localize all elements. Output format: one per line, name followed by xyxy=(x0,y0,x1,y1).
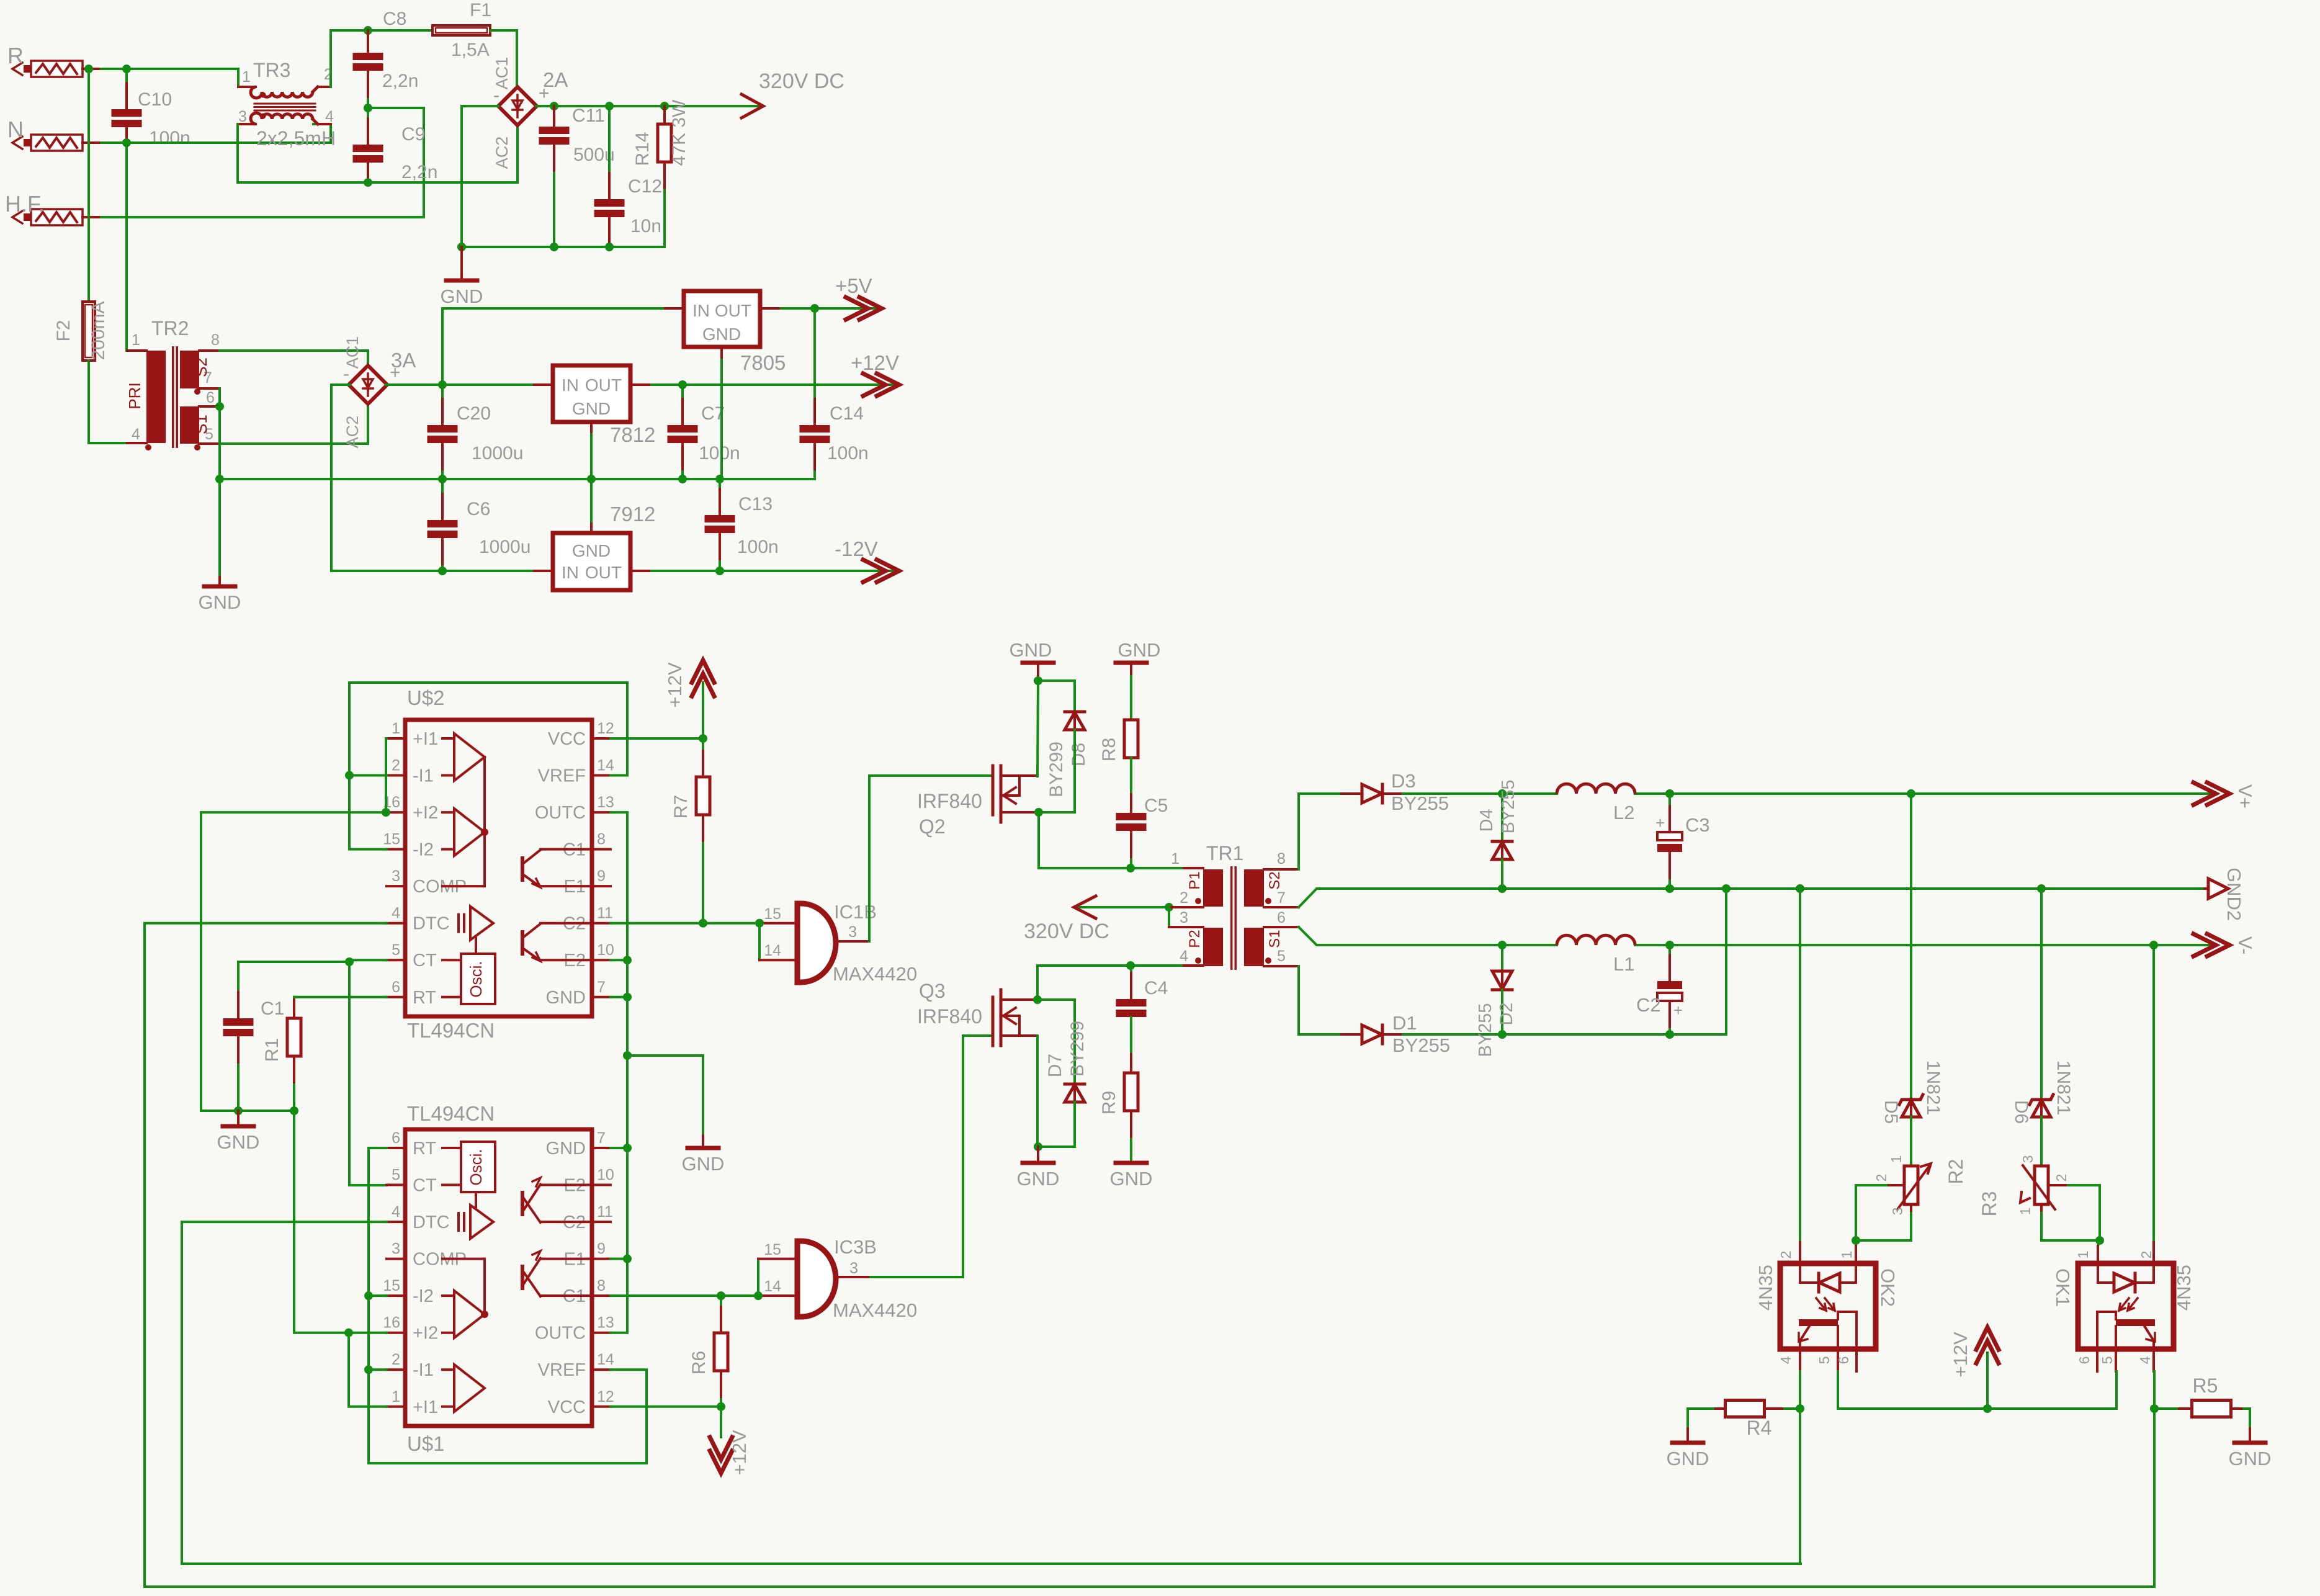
svg-text:R4: R4 xyxy=(1747,1417,1772,1439)
svg-text:C6: C6 xyxy=(467,499,490,519)
wire GND pin U$1 to vertical xyxy=(611,1147,627,1149)
svg-text:D7: D7 xyxy=(1045,1054,1065,1077)
svg-text:RT: RT xyxy=(413,988,436,1008)
arrow GND2 output xyxy=(2205,867,2245,921)
wire 7812 OUT +12V line xyxy=(630,383,896,386)
voltage regulator 7812 xyxy=(553,365,655,479)
wire RT U$2 to R1 xyxy=(294,996,387,998)
zener diode D6 1N821 xyxy=(2011,1060,2074,1124)
svg-text:1: 1 xyxy=(2075,1251,2091,1259)
svg-text:6: 6 xyxy=(392,1129,400,1147)
junction Q3 drain / D7 xyxy=(1033,995,1042,1004)
svg-text:U$1: U$1 xyxy=(407,1432,445,1455)
svg-text:GND: GND xyxy=(1118,639,1161,661)
arrow +12V (optocoupler supply) xyxy=(1950,1327,1999,1409)
svg-text:C8: C8 xyxy=(383,9,406,29)
junction IC1B pin14 tap xyxy=(755,919,764,928)
svg-text:100n: 100n xyxy=(149,128,190,148)
transistor Q2 IRF840 xyxy=(917,766,1037,838)
svg-text:GND: GND xyxy=(2229,1448,2272,1469)
svg-text:1: 1 xyxy=(1839,1251,1855,1259)
junction R4 / OK2 emitter xyxy=(1796,1404,1804,1413)
svg-text:7: 7 xyxy=(597,979,606,996)
capacitor C3 (polarized) xyxy=(1655,794,1710,889)
ground GND (below R9) xyxy=(1110,1163,1153,1190)
svg-text:OUT: OUT xyxy=(715,301,751,320)
svg-text:7: 7 xyxy=(1277,889,1286,907)
svg-text:4: 4 xyxy=(392,905,400,922)
svg-text:BY255: BY255 xyxy=(1391,792,1449,814)
U$1 comparator 1 xyxy=(442,1291,485,1338)
wire TR3 pin2 to F1 line xyxy=(331,30,432,87)
wire OK2 pin5 to +12V rail xyxy=(1838,1371,2116,1409)
svg-text:8: 8 xyxy=(1277,850,1286,867)
svg-text:GND: GND xyxy=(1667,1448,1709,1469)
ground GND (timing) xyxy=(217,1111,260,1153)
junction GND rail left xyxy=(457,243,466,251)
wire OUTC U$1 to vertical xyxy=(611,1332,627,1334)
junction C8 top xyxy=(364,26,372,35)
svg-text:OK1: OK1 xyxy=(2052,1268,2074,1307)
wire OK1 pin1 from junction xyxy=(2098,1240,2100,1263)
svg-text:GND: GND xyxy=(572,399,611,418)
svg-text:100n: 100n xyxy=(827,443,869,464)
svg-text:S2: S2 xyxy=(192,357,210,377)
terminal H.F. xyxy=(5,191,101,225)
svg-text:1: 1 xyxy=(392,1388,400,1405)
junction C5 bottom on TR1 pin1 line xyxy=(1126,864,1135,872)
junction center tap on 0V rail xyxy=(215,475,224,483)
wire bridge 3A minus to negative raw rail xyxy=(331,385,553,571)
svg-text:Osci.: Osci. xyxy=(467,1149,485,1185)
svg-text:OUTC: OUTC xyxy=(535,1324,586,1343)
ground GND (mains rectifier) xyxy=(441,247,483,307)
svg-text:C13: C13 xyxy=(738,494,773,514)
svg-text:BY299: BY299 xyxy=(1067,1021,1088,1077)
svg-text:1N821: 1N821 xyxy=(2053,1060,2074,1115)
wire D1 cathode rail to GND2 drop xyxy=(1403,889,1726,1034)
svg-text:IRF840: IRF840 xyxy=(917,1005,982,1028)
junction C1 bottom / GND stub xyxy=(234,1106,243,1115)
wire +I2/+I1 U$1 to GND rail feedback xyxy=(294,1111,387,1333)
resistor R6 xyxy=(689,1296,728,1407)
svg-text:TL494CN: TL494CN xyxy=(407,1019,495,1042)
svg-text:C5: C5 xyxy=(1144,796,1168,816)
svg-text:+: + xyxy=(1655,814,1665,832)
diode D4 BY255 xyxy=(1477,779,1518,889)
wire D8 anode to Q2 source xyxy=(1039,730,1075,812)
junction CT node xyxy=(345,957,354,966)
wire R2 pin3 to junction xyxy=(1856,1204,1911,1240)
common-mode choke TR3 2x2,5mH xyxy=(238,59,336,150)
svg-text:5: 5 xyxy=(392,1167,400,1184)
wire net R (R terminal to TR3 pin1, via F2/C10 taps) xyxy=(101,69,256,87)
wire TR2 pin8 to bridge AC1 xyxy=(220,351,368,367)
wire -I1 to loop xyxy=(349,774,387,777)
wire IC1B output to Q2 gate xyxy=(869,776,993,941)
svg-text:8: 8 xyxy=(211,331,220,349)
wire TR2 pin5 to bridge AC2 xyxy=(220,403,368,444)
arrow 320V DC output xyxy=(741,94,763,118)
svg-text:5: 5 xyxy=(1277,948,1286,965)
svg-text:7805: 7805 xyxy=(740,351,786,374)
junction Q2 source / D8 bottom xyxy=(1034,808,1043,817)
resistor R8 xyxy=(1099,720,1138,813)
junction C3 top (L2 out) xyxy=(1665,789,1674,798)
svg-text:7: 7 xyxy=(597,1129,606,1147)
svg-text:Q2: Q2 xyxy=(919,815,946,838)
svg-text:1000u: 1000u xyxy=(479,537,531,557)
junction R5 / OK1 emitter xyxy=(2150,1404,2159,1413)
capacitor C20 1000u xyxy=(428,385,524,479)
svg-text:U$2: U$2 xyxy=(407,686,445,709)
svg-text:5: 5 xyxy=(1816,1356,1832,1365)
svg-text:-I1: -I1 xyxy=(413,766,434,786)
capacitor C10 xyxy=(112,69,190,148)
voltage regulator 7912 xyxy=(553,479,655,590)
svg-text:C11: C11 xyxy=(572,105,605,126)
capacitor C11 500u xyxy=(539,105,615,247)
resistor R4 xyxy=(1688,1401,1800,1440)
wire 0V rail (aux) xyxy=(220,478,815,480)
svg-text:+5V: +5V xyxy=(835,274,872,297)
svg-text:320V DC: 320V DC xyxy=(1024,920,1109,943)
svg-text:GND: GND xyxy=(546,1139,586,1159)
wire Q2 source node xyxy=(1039,812,1184,868)
junction C20 bottom / C6 top xyxy=(438,475,447,483)
svg-text:MAX4420: MAX4420 xyxy=(833,1299,917,1321)
junction D4 bottom xyxy=(1498,884,1507,893)
U$1 dead-time comparator at DTC xyxy=(459,1192,493,1239)
svg-text:BY255: BY255 xyxy=(1498,779,1518,833)
svg-text:C3: C3 xyxy=(1685,814,1710,836)
ground GND (above Q2) xyxy=(1010,639,1054,681)
svg-text:1: 1 xyxy=(2017,1208,2033,1216)
svg-text:2: 2 xyxy=(1180,889,1188,907)
regulator pin stubs xyxy=(534,308,779,571)
svg-text:100n: 100n xyxy=(737,537,779,557)
svg-text:D3: D3 xyxy=(1391,770,1416,792)
U$2 oscillator box Osci. xyxy=(442,954,495,1004)
wire 7805 OUT +5V line xyxy=(760,307,879,310)
svg-text:R7: R7 xyxy=(671,795,691,818)
wire D5 to trimmer R2 pin1 xyxy=(1910,1117,1912,1166)
junction D6 takeoff xyxy=(2037,884,2046,893)
U$2 comparator output to COMP xyxy=(442,757,488,886)
svg-text:+I1: +I1 xyxy=(413,729,438,749)
svg-text:R3: R3 xyxy=(1978,1191,2000,1217)
svg-text:5: 5 xyxy=(2099,1356,2115,1365)
svg-text:C10: C10 xyxy=(138,89,172,110)
inductor L1 xyxy=(1557,935,1635,975)
svg-text:-I1: -I1 xyxy=(413,1360,434,1380)
wire E1 U$1 to vertical xyxy=(611,1258,627,1260)
svg-text:GND: GND xyxy=(1010,639,1052,661)
wire GND U$2 to vertical xyxy=(611,996,627,998)
resistor R1 (timing) xyxy=(262,997,301,1111)
wire +I2 feedback to GND rail xyxy=(201,812,386,1111)
svg-text:4: 4 xyxy=(392,1203,400,1221)
svg-text:+12V: +12V xyxy=(664,662,686,708)
svg-text:4: 4 xyxy=(1778,1356,1794,1364)
bridge rectifier B2 3A xyxy=(343,336,416,449)
junction R2/OK2 anode xyxy=(1852,1236,1860,1245)
junction C2 top (L1 out) xyxy=(1665,941,1674,949)
svg-text:+I1: +I1 xyxy=(413,1397,438,1417)
svg-text:2: 2 xyxy=(392,757,400,774)
junction -I2 U$1 xyxy=(364,1291,373,1300)
wire U$2 top loop VREF to -I inputs xyxy=(349,683,627,850)
wire V+ rail xyxy=(1403,792,2210,795)
junction TR1 center tap xyxy=(1165,903,1173,912)
wire net 320V DC rail xyxy=(536,105,761,107)
svg-text:DTC: DTC xyxy=(413,1213,450,1232)
svg-text:14: 14 xyxy=(597,1351,614,1368)
svg-text:C14: C14 xyxy=(830,403,864,424)
wire OUTC/E2/GND U$2 down to U$1 xyxy=(611,812,627,1333)
diode D2 BY255 xyxy=(1476,945,1516,1057)
junction D4 top xyxy=(1498,789,1507,798)
svg-text:11: 11 xyxy=(597,905,613,922)
optocoupler OK2 4N35 xyxy=(1755,1251,1899,1371)
svg-text:1N821: 1N821 xyxy=(1923,1060,1943,1115)
svg-text:8: 8 xyxy=(597,831,606,848)
svg-text:47K 3W: 47K 3W xyxy=(669,99,689,166)
svg-text:DTC: DTC xyxy=(413,914,450,934)
capacitor C14 100n xyxy=(800,308,869,479)
wire R3 wiper to junction xyxy=(2048,1185,2100,1240)
ground GND (R4) xyxy=(1667,1428,1709,1469)
svg-text:+I2: +I2 xyxy=(413,803,438,823)
svg-text:15: 15 xyxy=(764,905,781,923)
svg-text:+12V: +12V xyxy=(1950,1332,1971,1378)
junction IC3B pin15 tap xyxy=(754,1291,763,1300)
junction C4 top on TR1 pin4 line xyxy=(1126,961,1135,970)
junction raw+ node xyxy=(438,380,447,389)
wire -I1 to loop xyxy=(369,1368,387,1371)
svg-text:4: 4 xyxy=(325,108,334,125)
svg-text:1,5A: 1,5A xyxy=(451,40,490,60)
svg-text:MAX4420: MAX4420 xyxy=(833,963,917,985)
U$1 comparator output to COMP xyxy=(442,1259,488,1318)
gate driver IC3B MAX4420 xyxy=(764,1236,917,1321)
svg-text:GND2: GND2 xyxy=(2223,867,2245,921)
svg-text:14: 14 xyxy=(764,1278,781,1295)
wire R3 pin1 to junction xyxy=(2041,1204,2100,1240)
wire TR3 pin3 to bridge AC2 xyxy=(238,124,517,182)
svg-text:OUT: OUT xyxy=(585,375,622,395)
junction C11 bottom xyxy=(550,243,558,251)
arrow V+ output xyxy=(2193,782,2256,809)
svg-text:C4: C4 xyxy=(1144,978,1168,998)
junction +12V feedback xyxy=(1983,1404,1992,1413)
junction GND U$1 xyxy=(623,1144,632,1152)
svg-text:6: 6 xyxy=(1277,909,1286,926)
junction R/F2 xyxy=(84,65,93,73)
svg-text:1000u: 1000u xyxy=(472,443,523,464)
wire jog to IC1B pin 14 xyxy=(759,923,797,961)
svg-text:CT: CT xyxy=(413,1176,437,1196)
IC U$1 TL494CN box and pins xyxy=(383,1102,614,1455)
wire E2 U$2 to vertical xyxy=(611,959,627,961)
svg-text:10n: 10n xyxy=(630,216,661,236)
junction C13 top / 7805 GND xyxy=(715,475,724,483)
svg-text:5: 5 xyxy=(392,941,400,959)
arrow +12V supply U$1 xyxy=(710,1407,750,1476)
svg-text:S1: S1 xyxy=(1266,930,1283,948)
svg-text:R14: R14 xyxy=(632,132,653,166)
arrow +5V output xyxy=(835,274,882,320)
junction VCC/R7 top xyxy=(699,734,707,743)
capacitor C8 2,2n xyxy=(353,9,419,108)
svg-text:GND: GND xyxy=(702,325,741,344)
junction C7 bottom xyxy=(678,475,687,483)
capacitor C2 (polarized) xyxy=(1636,945,1683,1034)
wire U$2 C2 output line to IC1B xyxy=(611,922,797,925)
wire TR2 center tap to GND rail xyxy=(218,388,221,479)
voltage regulator 7805 xyxy=(684,291,786,479)
zener diode D5 1N821 xyxy=(1881,1060,1943,1124)
svg-text:Osci.: Osci. xyxy=(467,961,485,997)
svg-text:1: 1 xyxy=(242,68,251,86)
svg-text:GND: GND xyxy=(441,285,483,307)
wire raw+ to 7805 IN xyxy=(442,308,684,385)
svg-text:2x2,5mH: 2x2,5mH xyxy=(256,127,336,150)
wire OK1 pin4 to R5 junction xyxy=(2153,1371,2156,1409)
wire D7 anode to GND node xyxy=(1038,1102,1075,1147)
junction R7 bottom on C2 line xyxy=(699,919,707,928)
svg-text:9: 9 xyxy=(597,1240,606,1258)
ground GND (aux supply) xyxy=(199,479,241,613)
svg-text:AC2: AC2 xyxy=(493,137,511,169)
svg-text:V+: V+ xyxy=(2234,784,2256,809)
svg-text:3: 3 xyxy=(849,1260,858,1277)
svg-text:6: 6 xyxy=(2076,1356,2092,1365)
svg-text:3: 3 xyxy=(1889,1208,1906,1216)
svg-text:2,2n: 2,2n xyxy=(401,162,437,182)
svg-text:TR2: TR2 xyxy=(151,317,189,339)
junction GND2 to lower rail xyxy=(1722,884,1731,893)
terminal N xyxy=(7,117,101,151)
svg-text:L1: L1 xyxy=(1613,953,1634,975)
svg-text:IN: IN xyxy=(692,301,710,320)
transistor Q3 IRF840 xyxy=(917,980,1037,1046)
wire net H.F. xyxy=(101,108,424,217)
svg-text:7812: 7812 xyxy=(610,423,655,446)
svg-text:D2: D2 xyxy=(1497,1002,1516,1025)
svg-text:6: 6 xyxy=(206,389,215,406)
capacitor C4 xyxy=(1116,966,1168,1073)
wire 7912 OUT -12V line xyxy=(630,570,896,572)
wire to GND symbol between ICs xyxy=(627,1056,703,1145)
wire OK2 pin4 to R4 and lower feedback xyxy=(1799,1371,1801,1564)
wire VREF loop U$1 (VREF to RT/-I1/-I2) xyxy=(369,1148,647,1463)
wire DTC U$2 feedback line (to OK1 side) xyxy=(145,923,2154,1587)
svg-text:TR1: TR1 xyxy=(1206,842,1243,864)
svg-text:GND: GND xyxy=(1110,1168,1153,1190)
wire DTC U$1 feedback line (to OK2 side) xyxy=(182,1222,1801,1564)
svg-text:16: 16 xyxy=(383,1314,400,1332)
junction R3/OK1 anode xyxy=(2095,1236,2104,1245)
svg-text:D8: D8 xyxy=(1068,743,1089,766)
svg-text:2,2n: 2,2n xyxy=(382,71,418,91)
junction GND2 to OK2 xyxy=(1796,884,1804,893)
svg-text:GND: GND xyxy=(682,1153,725,1175)
wire +I1 to +I2 tie xyxy=(386,738,387,812)
svg-text:OUT: OUT xyxy=(585,563,622,582)
svg-text:R9: R9 xyxy=(1099,1091,1119,1114)
svg-text:GND: GND xyxy=(1017,1168,1060,1190)
transformer TR2 xyxy=(125,317,220,451)
wire TR1 pin6 to V- rail xyxy=(1299,927,2210,945)
svg-text:3: 3 xyxy=(238,108,247,125)
svg-text:Q3: Q3 xyxy=(919,980,946,1002)
arrow +12V output xyxy=(851,351,899,396)
svg-text:12: 12 xyxy=(597,1388,614,1405)
svg-text:IN: IN xyxy=(562,375,579,395)
svg-text:-12V: -12V xyxy=(835,537,878,560)
U$2 output transistor 1 (C1/E1) xyxy=(522,850,592,887)
svg-text:4: 4 xyxy=(132,426,140,443)
svg-text:100n: 100n xyxy=(699,443,740,464)
svg-text:3: 3 xyxy=(848,923,857,941)
junction R14 top xyxy=(660,102,669,110)
wire V- down to OK1 pin2 xyxy=(2152,945,2155,1263)
svg-text:V-: V- xyxy=(2234,936,2256,954)
trimmer R3 xyxy=(1978,1155,2069,1217)
svg-text:4N35: 4N35 xyxy=(1755,1265,1776,1311)
junction D2 bottom xyxy=(1498,1030,1507,1039)
svg-text:GND: GND xyxy=(199,591,241,613)
junction R1 bottom xyxy=(290,1106,298,1115)
junction C7 top xyxy=(678,380,687,389)
svg-text:1: 1 xyxy=(392,720,400,737)
junction E2 xyxy=(623,956,632,964)
svg-text:R1: R1 xyxy=(262,1038,282,1062)
inductor L2 xyxy=(1557,784,1635,823)
svg-text:R: R xyxy=(7,43,24,68)
svg-text:3: 3 xyxy=(392,1240,400,1258)
U$2 dead-time comparator at DTC xyxy=(459,907,493,954)
svg-text:VREF: VREF xyxy=(538,1360,586,1380)
ground GND (between TL494s) xyxy=(682,1136,725,1175)
resistor R14 47K 3W xyxy=(632,99,689,247)
wire +I1 tie xyxy=(349,1333,387,1407)
svg-text:OK2: OK2 xyxy=(1877,1268,1899,1307)
wire jog to IC3B pin 15 xyxy=(758,1259,797,1296)
svg-text:-I2: -I2 xyxy=(413,840,434,860)
svg-text:14: 14 xyxy=(597,757,614,774)
wire V+ to D5 xyxy=(1910,794,1912,1098)
svg-text:9: 9 xyxy=(597,867,606,885)
wire GND2 down to OK2 pin2 xyxy=(1799,889,1801,1263)
wire -I2 to loop xyxy=(369,1294,387,1297)
capacitor C6 1000u xyxy=(428,479,531,571)
diode D7 BY299 xyxy=(1045,1021,1088,1102)
transformer TR1 xyxy=(1169,842,1299,970)
junction VCC U$1 / R6 bottom xyxy=(717,1402,725,1411)
svg-text:10: 10 xyxy=(597,941,614,959)
svg-text:L2: L2 xyxy=(1613,802,1634,823)
svg-text:10: 10 xyxy=(597,1167,614,1184)
fuse F1 1,5A xyxy=(432,0,517,86)
arrow +12V supply U$2 xyxy=(664,660,714,738)
wire GND to D8 xyxy=(1038,681,1075,711)
capacitor C12 10n xyxy=(594,106,663,247)
wire GND rail under bridge xyxy=(462,246,665,248)
svg-text:4: 4 xyxy=(2137,1356,2153,1364)
wire TR1 pin5 down to D1 line xyxy=(1299,966,1341,1034)
